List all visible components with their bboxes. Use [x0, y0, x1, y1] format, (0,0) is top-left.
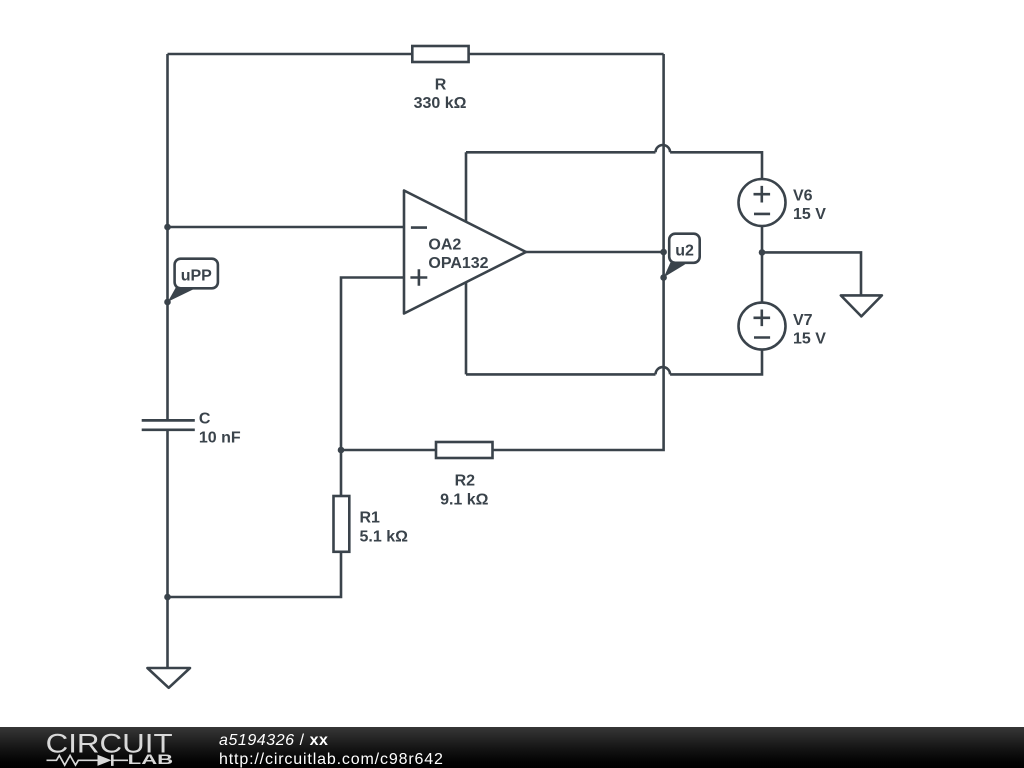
- svg-text:uPP: uPP: [181, 267, 212, 284]
- ground bottom left: [147, 668, 190, 688]
- op-amp inverting input minus symbol: [411, 226, 427, 229]
- svg-text:R2: R2: [455, 473, 476, 490]
- svg-text:330 kΩ: 330 kΩ: [414, 95, 467, 112]
- svg-text:10 nF: 10 nF: [199, 429, 241, 446]
- svg-text:V7: V7: [793, 312, 813, 329]
- wire left rail vertical down to capacitor top plate: [166, 54, 169, 420]
- wire between V6 and V7: [761, 226, 764, 303]
- wire op-amp output to right vertical net: [526, 251, 664, 254]
- wire inverting input from left rail node to op-amp: [168, 226, 405, 229]
- node dot R1/R2 junction: [338, 447, 345, 454]
- footer schematic id text: [219, 731, 329, 750]
- V7 minus symbol: [754, 336, 770, 339]
- ground right: [841, 295, 882, 316]
- svg-text:R1: R1: [360, 510, 381, 527]
- flag uPP box: [175, 259, 218, 289]
- flag u2 box: [669, 234, 700, 263]
- node dot inverting input tee: [164, 224, 171, 231]
- capacitor C plates: [142, 420, 195, 429]
- footer bar: [0, 727, 1024, 768]
- wire capacitor bottom plate down to ground: [166, 430, 169, 668]
- resistor R: [412, 46, 468, 62]
- svg-text:9.1 kΩ: 9.1 kΩ: [440, 491, 489, 508]
- svg-text:OPA132: OPA132: [428, 255, 488, 272]
- svg-text:5.1 kΩ: 5.1 kΩ: [360, 529, 409, 546]
- node dot u2 anchor: [660, 274, 667, 281]
- wire op-amp power pins vertical: [465, 152, 468, 374]
- svg-text:15 V: 15 V: [793, 330, 826, 347]
- wire hop arc on bottom supply rail: [656, 367, 671, 374]
- resistor R1: [334, 496, 350, 552]
- V6 minus symbol: [754, 213, 770, 216]
- V6 plus symbol: [754, 186, 771, 203]
- flag u2 tail: [664, 261, 686, 277]
- svg-text:u2: u2: [675, 242, 694, 259]
- wire hop arc on top supply rail: [656, 145, 671, 152]
- node dot output junction: [660, 249, 667, 256]
- svg-text:15 V: 15 V: [793, 206, 826, 223]
- node dot uPP anchor: [164, 299, 171, 306]
- voltage source V6: [739, 179, 786, 226]
- wire top feedback from left rail to right rail: [168, 53, 664, 56]
- svg-text:R: R: [435, 76, 447, 93]
- wire top supply rail with hop over right net, to V6 plus terminal: [466, 152, 762, 179]
- op-amp OA2 triangle: [404, 191, 526, 314]
- resistor R2: [436, 442, 493, 458]
- wire non-inverting input, down R1 column to bottom node, left to left rail: [168, 278, 405, 598]
- wire supply midpoint to right ground: [762, 252, 861, 295]
- op-amp non-inverting input plus symbol: [410, 269, 427, 286]
- flag uPP tail: [168, 286, 194, 302]
- svg-text:LAB: LAB: [128, 751, 174, 767]
- node dot supply midpoint: [759, 249, 766, 256]
- CircuitLab logo (wordmark, resistor-diode symbol, LAB): [0, 727, 200, 768]
- svg-text:V6: V6: [793, 188, 813, 205]
- V7 plus symbol: [754, 310, 771, 327]
- wire right vertical net (output / feedback column) down to R2 row then left to R1 top node: [341, 54, 664, 450]
- footer url text: [219, 750, 444, 768]
- svg-text:C: C: [199, 411, 211, 428]
- wire bottom supply rail with hop over right net, to V7 minus terminal: [466, 350, 762, 375]
- node dot bottom left tee: [164, 594, 171, 601]
- voltage source V7: [739, 303, 786, 350]
- svg-text:OA2: OA2: [428, 237, 461, 254]
